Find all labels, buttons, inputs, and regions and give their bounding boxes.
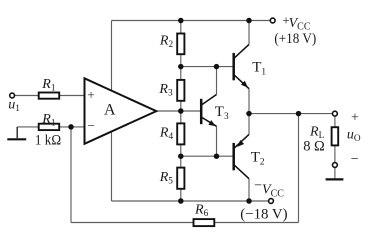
wire -Vcc bottom rail — [112, 200, 269, 202]
wire T2 emitter riser — [248, 114, 250, 135]
junction output / feedback — [296, 111, 302, 117]
svg-text:−: − — [351, 152, 359, 167]
terminal output - — [333, 163, 338, 168]
svg-text:(+18 V): (+18 V) — [274, 31, 316, 47]
transistor T2 emitter lead — [234, 134, 249, 148]
wire RL ground stub — [334, 168, 336, 179]
wire T1 collector riser — [248, 21, 250, 45]
ground left — [7, 138, 26, 140]
transistor T2 base bar — [232, 143, 235, 170]
resistor R4 — [177, 123, 184, 144]
junction top rail / R2 — [178, 18, 184, 24]
svg-text:1 kΩ: 1 kΩ — [35, 133, 61, 149]
terminal u1 input — [10, 93, 15, 98]
wire RL top stub — [334, 117, 336, 128]
wire op-amp V- supply lead — [111, 132, 113, 202]
resistor R2 — [177, 34, 184, 55]
resistor RL (load) — [332, 127, 339, 145]
ground left stub — [16, 127, 18, 138]
junction R2/R3 T1 base — [178, 64, 184, 70]
ground right — [326, 178, 344, 180]
transistor T2 collector lead — [234, 165, 249, 179]
svg-text:+: + — [351, 111, 359, 126]
transistor T1 collector lead — [234, 44, 249, 58]
wire +Vcc top rail — [112, 20, 270, 22]
transistor T2 emitter arrow (PNP) — [237, 140, 244, 147]
junction R3/R4 op-amp output — [178, 108, 184, 114]
wire output rail — [249, 113, 332, 115]
junction output emitters — [246, 111, 252, 117]
wire feedback bottom through R6 — [71, 222, 299, 224]
wire ground R1 to inverting input — [17, 126, 84, 128]
transistor T1 emitter lead — [234, 75, 249, 89]
svg-text:8 Ω: 8 Ω — [303, 138, 325, 154]
transistor T3 collector lead — [201, 95, 216, 106]
transistor T1 emitter arrow — [241, 81, 248, 88]
wire T2 base — [181, 155, 234, 157]
terminal output + — [333, 111, 338, 116]
transistor T3 emitter lead — [201, 117, 216, 126]
wire input u1 to op-amp + input — [15, 95, 85, 97]
wire T3 collector riser — [216, 67, 218, 95]
resistor R1 (input) — [39, 93, 60, 99]
resistor R6 (feedback) — [194, 219, 215, 226]
transistor T3 base bar — [200, 99, 203, 124]
wire T1 base — [181, 66, 234, 68]
op-amp U1 triangle — [85, 78, 157, 144]
svg-text:(−18 V): (−18 V) — [240, 206, 287, 222]
transistor T1 base bar — [232, 53, 235, 80]
terminal +Vcc — [270, 18, 275, 23]
wire RL bottom stub — [334, 145, 336, 162]
wire T3 emitter drop — [216, 126, 218, 156]
svg-text:−: − — [88, 118, 95, 133]
junction T3 emitter / T2 base — [214, 153, 220, 159]
terminal -Vcc — [269, 199, 274, 204]
junction top rail / T1 collector — [246, 18, 252, 24]
wire feedback vertical right — [298, 114, 300, 223]
resistor R5 — [177, 168, 184, 189]
wire resistor chain R2-R5 — [180, 21, 182, 202]
wire T2 collector drop — [248, 179, 250, 201]
wire op-amp V+ supply lead — [111, 21, 113, 91]
junction bottom rail / R5 — [178, 198, 184, 204]
svg-text:+: + — [87, 87, 94, 102]
junction inverting input node — [68, 124, 74, 129]
wire feedback vertical left — [70, 127, 72, 223]
resistor R1 (ground leg) — [39, 124, 60, 130]
junction R4/R5 T2 base — [178, 153, 184, 159]
junction bottom rail / T2 collector — [246, 198, 252, 204]
junction T3 collector / T1 base — [214, 64, 220, 70]
wire T1 emitter drop — [248, 89, 250, 114]
svg-text:A: A — [104, 102, 116, 119]
resistor R3 — [177, 80, 184, 101]
wire op-amp output to T3 base — [156, 110, 201, 112]
transistor T3 emitter arrow — [208, 120, 215, 126]
